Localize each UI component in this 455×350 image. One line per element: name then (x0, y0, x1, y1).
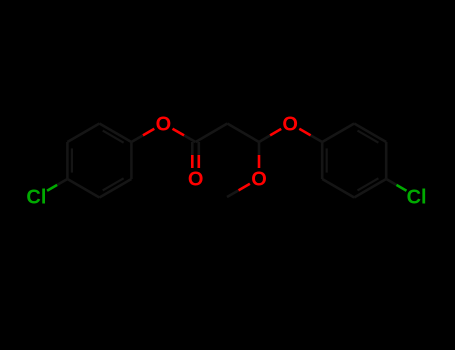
svg-text:Cl: Cl (26, 187, 46, 209)
bond carbonyl C - CH2 (196, 124, 228, 143)
svg-text:O: O (251, 169, 267, 191)
svg-text:Cl: Cl (407, 187, 427, 209)
bond Cl-C4' (right ring, half green) (386, 179, 406, 191)
right chlorophenyl ring C1'-C6' (322, 124, 386, 198)
svg-text:O: O (282, 114, 298, 136)
bond Cl-C4 (left ring, half green) (47, 179, 67, 191)
carbonyl C=O double bond (192, 142, 199, 168)
bond CH2 - CH (227, 124, 259, 143)
bond aryl ether O - right ring ipso C (half red) (299, 129, 322, 142)
bond CH - aryl ether O (half red) (259, 129, 281, 142)
bond ester O - carbonyl C (half red) (173, 129, 196, 142)
bond ester O - left ring ipso C (half red) (131, 129, 154, 142)
bond methoxy O - methyl C (half red) (227, 184, 250, 197)
svg-text:O: O (156, 114, 172, 136)
bond CH - methoxy O (half red) (258, 142, 261, 168)
svg-text:O: O (188, 169, 204, 191)
left chlorophenyl ring C1-C6 (67, 124, 131, 198)
